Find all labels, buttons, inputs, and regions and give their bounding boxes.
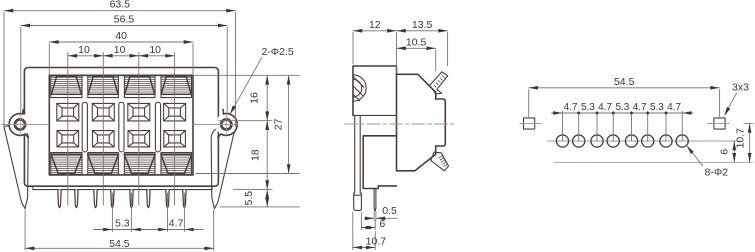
svg-text:4.7: 4.7	[169, 217, 184, 229]
svg-text:5.3: 5.3	[615, 102, 629, 113]
svg-text:2-Φ2.5: 2-Φ2.5	[261, 46, 293, 58]
svg-text:63.5: 63.5	[110, 0, 131, 11]
svg-text:12: 12	[369, 19, 381, 31]
svg-text:54.5: 54.5	[109, 238, 130, 250]
svg-text:3x3: 3x3	[732, 81, 749, 93]
svg-text:16: 16	[248, 92, 260, 104]
svg-text:4.7: 4.7	[633, 102, 647, 113]
svg-text:4.7: 4.7	[598, 102, 612, 113]
svg-text:54.5: 54.5	[614, 76, 635, 88]
svg-text:10.7: 10.7	[735, 128, 747, 149]
svg-text:27: 27	[273, 118, 285, 130]
svg-text:10.5: 10.5	[406, 36, 427, 48]
svg-text:0.5: 0.5	[382, 205, 397, 217]
svg-text:5.3: 5.3	[115, 217, 130, 229]
svg-text:6: 6	[379, 218, 385, 230]
svg-text:5.3: 5.3	[650, 102, 664, 113]
svg-text:40: 40	[115, 30, 127, 42]
svg-text:10: 10	[78, 44, 90, 56]
svg-text:5.5: 5.5	[243, 191, 255, 206]
svg-text:56.5: 56.5	[114, 14, 135, 26]
svg-text:6: 6	[718, 149, 730, 155]
svg-text:5.3: 5.3	[581, 102, 595, 113]
svg-text:4.7: 4.7	[667, 102, 681, 113]
svg-text:4.7: 4.7	[564, 102, 578, 113]
svg-text:10: 10	[149, 44, 161, 56]
svg-text:10.7: 10.7	[366, 235, 387, 247]
svg-text:18: 18	[249, 149, 261, 161]
svg-text:8-Φ2: 8-Φ2	[705, 167, 729, 179]
svg-text:13.5: 13.5	[412, 19, 433, 31]
svg-text:10: 10	[114, 44, 126, 56]
